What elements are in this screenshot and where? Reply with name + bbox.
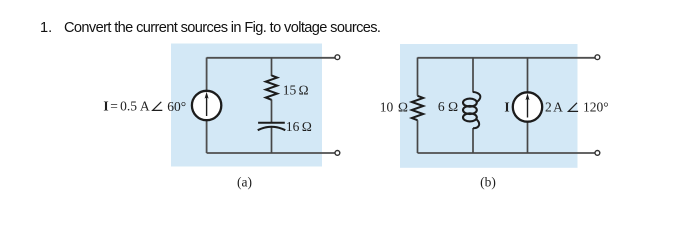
wire: (a) top horizontal [207,57,335,59]
wire: (b) right vertical lower segment [527,121,529,153]
svg-text:I: I [504,100,509,115]
svg-text:A: A [553,100,563,115]
svg-text:(b): (b) [480,175,496,190]
svg-text:6: 6 [438,99,445,114]
svg-text:16: 16 [286,119,300,134]
wire: (b) bottom horizontal [418,152,595,154]
terminal node (a) top [335,55,340,60]
svg-text:Convert the current sources in: Convert the current sources in Fig. to v… [64,20,381,36]
svg-text:Ω: Ω [298,83,308,98]
svg-text:Ω: Ω [302,119,312,134]
circuit (a) blue background [171,44,322,167]
terminal node (a) bottom [335,151,340,156]
svg-text:2: 2 [545,100,552,115]
inductor 6 ohm (b) [463,92,480,128]
wire: (a) middle vertical lower segment [271,127,273,153]
wire: (b) left vertical lower segment [417,120,419,153]
svg-text:I: I [103,99,108,114]
svg-text:Ω: Ω [448,99,458,114]
circuit (b) blue background [400,44,578,168]
label I = 0.5 A angle 60deg (a) [103,99,186,114]
wire: (a) middle vertical between resistor and capacitor [271,100,273,123]
resistor 15 ohm (a) [266,75,277,99]
svg-text:10: 10 [380,99,394,114]
wire: (a) middle vertical upper segment [271,58,273,77]
svg-text:Ω: Ω [398,99,408,114]
svg-text:15: 15 [283,83,297,98]
svg-text:=: = [110,99,118,114]
svg-text:1.: 1. [40,20,52,36]
wire: (b) top horizontal [418,57,595,59]
svg-text:0.5: 0.5 [120,99,137,114]
svg-text:120°: 120° [583,100,609,115]
wire: (b) right vertical upper segment [527,58,529,94]
wire: (a) left vertical branch [206,58,208,154]
terminal node (b) bottom [595,151,600,156]
svg-text:(a): (a) [237,175,252,190]
wire: (a) bottom horizontal [207,152,335,154]
current source I (b) [513,92,542,121]
wire: (b) left vertical upper segment [417,58,419,96]
current source I (a) [192,91,221,120]
capacitor 16 ohm (a) [258,123,286,131]
label 2 A angle 120deg (b) [545,100,609,115]
svg-text:60°: 60° [167,99,186,114]
resistor 10 ohm (b) [412,96,423,120]
svg-text:A: A [140,99,150,114]
wire: (b) middle vertical upper segment [472,58,474,93]
wire: (b) middle vertical lower segment [472,128,474,153]
terminal node (b) top [595,55,600,60]
